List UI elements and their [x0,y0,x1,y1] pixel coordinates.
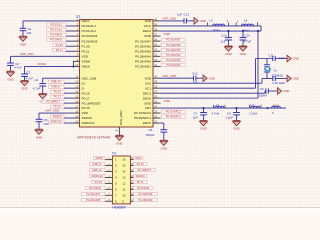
pin 36 P0.31/AIN7 [153,40,161,42]
svg-text:VDDH: VDDH [82,60,91,64]
svg-text:39: 39 [154,22,157,26]
wire pin1 DEC1 [23,20,73,22]
wire pin40 VDD [161,20,185,22]
capacitor C2 4.7uF [10,56,12,63]
port P0.02/AIN0 [162,58,186,61]
svg-text:2.2nH: 2.2nH [250,111,258,115]
wire pin30 VDD [161,77,194,79]
P1 pin 16 GND [130,159,133,161]
svg-text:GND: GND [21,87,27,91]
svg-text:1pF: 1pF [193,116,198,120]
pin 21 DEC5 [153,122,161,124]
ground right of C12 [203,75,207,82]
svg-text:GND: GND [200,19,206,23]
inductor L2 10nH [207,22,209,26]
svg-text:P0.17: P0.17 [82,96,90,100]
svg-text:37: 37 [154,32,157,36]
svg-text:P0.09/NFC1: P0.09/NFC1 [134,116,151,120]
port P0.31/AIN7 [162,38,186,41]
svg-text:P0.20: P0.20 [137,162,145,166]
svg-text:104: 104 [193,81,198,85]
svg-text:GND: GND [200,127,206,131]
svg-text:4.7uF: 4.7uF [25,77,33,81]
svg-text:D+: D+ [82,81,86,85]
port P0.5/AN3 [46,38,66,41]
pin 5 P0.05/AIN3 [73,40,80,42]
svg-text:C6: C6 [149,128,153,132]
svg-text:P0.5/AN3: P0.5/AN3 [50,38,62,42]
svg-text:GND: GND [116,141,122,145]
port P0.15 [51,90,64,93]
svg-text:P0.28/AIN4: P0.28/AIN4 [138,198,153,202]
svg-text:P1.00: P1.00 [82,44,90,48]
capacitor C5 104 [38,113,40,119]
svg-text:C12: C12 [192,72,198,76]
svg-text:P0.09/NFC1: P0.09/NFC1 [166,115,182,119]
svg-text:GND: GND [233,127,239,131]
svg-text:27: 27 [154,90,157,94]
svg-text:P0.31/AIN7: P0.31/AIN7 [86,192,101,196]
port P0.30/AIN6 [162,43,186,46]
wire pin29 XC2 [161,82,263,84]
pin 15 P0.17 [73,97,80,99]
wire pin18 VDD [39,112,73,114]
pin 1 DEC1 [73,20,80,22]
svg-text:P0.02/AIN0: P0.02/AIN0 [166,58,181,62]
port P0.28/AIN4 [162,53,186,56]
svg-text:GND: GND [283,89,289,93]
svg-text:DEC4: DEC4 [143,29,152,33]
svg-text:13: 13 [75,85,78,89]
svg-text:C10 12pF: C10 12pF [272,81,285,85]
P1 pin 7 SWDCLK [105,176,112,178]
svg-text:C13: C13 [184,12,190,16]
svg-text:XC2: XC2 [145,81,151,85]
svg-text:34: 34 [154,48,157,52]
svg-text:P0.03/AIN1: P0.03/AIN1 [166,63,181,67]
svg-text:P0.5/AN3: P0.5/AN3 [137,186,149,190]
wire L4 out down to DEC4 row [260,26,262,31]
inductor L3 2.2nH [249,105,251,108]
wire pin9 VDDH drop [72,60,75,62]
svg-text:nRF_VDD: nRF_VDD [46,108,61,112]
port P0.10/NFC2 [162,110,186,113]
capacitor C7 1pF [203,108,205,112]
svg-text:P0.0/XL1: P0.0/XL1 [51,23,63,27]
svg-text:HEADER: HEADER [112,206,126,210]
P1 pin 10 P0.30/AIN6 [130,194,133,196]
svg-text:19: 19 [75,114,78,118]
svg-text:DEC_USB: DEC_USB [82,76,97,80]
pin 39 DCC [153,25,161,27]
svg-text:4.7uF: 4.7uF [244,39,252,43]
svg-text:VDD: VDD [82,111,89,115]
svg-text:D-: D- [82,86,85,90]
svg-text:SWDCLK: SWDCLK [50,120,62,124]
wire pin10 VBUS / VDDH net [25,65,74,67]
svg-text:P0.18/RESET: P0.18/RESET [82,101,101,105]
junction R ANT [266,107,268,109]
svg-text:20: 20 [75,119,78,123]
svg-text:P0.11: P0.11 [82,49,90,53]
wire pin11 DEC_USB [43,77,73,79]
svg-text:P0.1/XL2: P0.1/XL2 [51,28,63,32]
svg-text:41: 41 [115,129,118,133]
pin 29 XC2 [153,82,161,84]
svg-text:SWDIO: SWDIO [82,116,93,120]
svg-text:VDD: VDD [144,76,151,80]
pin 16 P0.18/RESET [73,102,80,104]
svg-text:P1.00: P1.00 [95,180,103,184]
svg-text:4.7uF: 4.7uF [33,87,41,91]
svg-text:P0.30/AIN6: P0.30/AIN6 [166,43,181,47]
capacitor C14 4.7uF [242,31,244,38]
pin 20 SWDCLK [73,122,80,124]
capacitor C8 1.2pF [236,108,238,112]
svg-text:P0.28/AIN4: P0.28/AIN4 [135,54,151,58]
svg-text:P0.31/AIN7: P0.31/AIN7 [166,38,181,42]
svg-text:11: 11 [122,187,125,191]
svg-text:P0.17: P0.17 [54,95,62,99]
port P0.29/AIN5 [162,48,186,51]
ground right of C11 [287,55,291,62]
svg-text:30: 30 [154,75,157,79]
svg-text:P0.29/AIN5: P0.29/AIN5 [86,198,101,202]
svg-text:L4: L4 [244,18,248,22]
ground right of C9 [278,88,282,95]
pin 7 P0.11 [73,50,80,52]
wire pin28 XC1 [161,87,256,89]
svg-text:GND: GND [144,34,152,38]
wire pin39 DCC [161,25,262,27]
P1 pin 9 P0.28/AIN4 [130,200,133,202]
wire pin26 DEC6 [161,97,259,99]
wire pin38 DEC4 [161,30,262,32]
svg-text:10: 10 [122,193,126,197]
port P0.0/XL1 [46,23,66,26]
svg-text:4.7uF: 4.7uF [14,66,22,70]
port SWDIO [51,115,64,118]
P1 pin 13 SWDIO [130,176,133,178]
P1 pin 3 USB_D- [105,165,112,167]
svg-text:SWDCLK: SWDCLK [91,174,103,178]
pin 38 DEC4 [153,30,161,32]
port P0.4/AN2 [46,33,66,36]
capacitor C15 1uF [228,31,230,38]
port P0.09/NFC1 [162,115,186,118]
svg-text:15: 15 [122,164,126,168]
svg-text:DEC3: DEC3 [143,91,152,95]
svg-text:104: 104 [44,122,49,126]
P1 pin 12 P0.11 [130,182,133,184]
pin 2 P0.00/XL1 [73,25,80,27]
svg-text:P0.18/RST: P0.18/RST [46,100,60,104]
svg-text:USB_D+: USB_D+ [51,80,62,84]
P1 pin 14 P0.18/RST [130,171,133,173]
svg-text:P0.02/AIN0: P0.02/AIN0 [135,60,151,64]
svg-text:VBUS: VBUS [82,65,90,69]
pin 10 VBUS [73,65,80,67]
ground pad GND [116,134,124,136]
ground for C4 [39,93,47,95]
port P0.18/RST [42,100,64,103]
svg-text:28: 28 [154,85,157,89]
ground for C5 [35,128,43,130]
svg-text:12: 12 [122,182,126,186]
svg-text:23: 23 [154,109,157,113]
port P0.11 [53,48,66,51]
svg-text:104: 104 [26,31,31,35]
svg-text:4.7nH: 4.7nH [212,111,220,115]
svg-text:33: 33 [154,53,157,57]
P1 pin 15 P0.20 [130,165,133,167]
ground right of C13 [194,18,198,25]
svg-text:C15: C15 [221,34,227,38]
svg-text:C3: C3 [26,70,30,74]
svg-text:GND: GND [135,156,141,160]
svg-text:nRF52833-QFN40: nRF52833-QFN40 [77,135,110,139]
wire pin21 DEC5 [161,122,164,124]
wire pin27 DEC3 [161,92,266,94]
ground for C6 [160,139,168,141]
svg-text:P0.11: P0.11 [56,48,63,52]
svg-text:P0.30/AIN6: P0.30/AIN6 [135,44,151,48]
capacitor C1 104 [20,27,27,29]
svg-text:(32MHZ): (32MHZ) [272,74,283,78]
ground for C3 [21,80,29,82]
capacitor C10 12pF [272,76,274,81]
pin 8 VDD [73,55,80,57]
P1 pin 11 P0.4/AN2 [105,188,112,190]
junction C8 [235,107,237,109]
pin 32 P0.02/AIN0 [153,60,161,62]
svg-text:ANT: ANT [145,106,151,110]
svg-text:P1: P1 [112,152,116,156]
svg-text:SWDIO: SWDIO [53,115,62,119]
pin 4 P0.04/AIN2 [73,35,80,37]
svg-text:13: 13 [122,176,126,180]
pin 17 P0.20 [73,107,80,109]
P1 pin 1 VDDH [105,159,112,161]
svg-text:35: 35 [154,43,157,47]
P1 pin 5 USB_D+ [105,171,112,173]
svg-text:GND: GND [240,52,246,56]
svg-text:P0.11: P0.11 [137,180,144,184]
svg-text:C14: C14 [244,34,250,38]
svg-text:nRF_VDD: nRF_VDD [163,17,178,21]
port P0.20 [51,105,64,108]
svg-text:32: 32 [154,58,157,62]
svg-text:C11: C11 [269,54,274,58]
pin 19 SWDIO [73,117,80,119]
ground for C2 [7,70,15,72]
svg-text:USB_D-: USB_D- [92,162,102,166]
pin 3 P0.01/XL2 [73,30,80,32]
svg-text:10nH: 10nH [213,28,220,32]
P1 pin 15 P0.29/AIN5 [105,200,112,202]
pin 35 P0.30/AIN6 [153,45,161,47]
svg-text:GND: GND [164,99,172,103]
svg-text:21: 21 [154,119,157,123]
svg-text:nRF_VDD: nRF_VDD [20,52,35,56]
port SWDCLK [49,120,65,123]
svg-text:P0.15: P0.15 [82,91,90,95]
svg-text:P0.28/AIN4: P0.28/AIN4 [166,53,181,57]
pin 33 P0.28/AIN4 [153,55,161,57]
pin 27 DEC3 [153,92,161,94]
svg-text:GND: GND [20,42,26,46]
svg-text:P0.05/AIN3: P0.05/AIN3 [82,39,98,43]
svg-text:USB_D+: USB_D+ [92,168,103,172]
wire pin8 VDD [11,55,74,57]
svg-text:24: 24 [154,104,157,108]
svg-text:GND: GND [7,77,13,81]
svg-text:14: 14 [122,170,126,174]
svg-text:VDDH: VDDH [95,156,103,160]
svg-text:10: 10 [75,63,78,67]
svg-text:P0.29/AIN5: P0.29/AIN5 [166,48,181,52]
inductor L4 10uH [235,22,237,26]
ground for C8 [233,120,241,122]
P1 pin 9 P1.00 [105,182,112,184]
pin 13 D- [73,87,80,89]
svg-text:31: 31 [154,63,157,67]
svg-text:16: 16 [75,100,78,104]
svg-text:P0.4/AN2: P0.4/AN2 [50,33,62,37]
pin 28 XC1 [153,87,161,89]
pin 31 P0.03/AIN1 [153,65,161,67]
svg-text:DEC5: DEC5 [143,121,152,125]
ground for C14 [239,45,247,47]
svg-text:P1.00: P1.00 [56,43,64,47]
connector P1 HEADER 16 pin body [112,156,130,204]
crystal Y2 32MHz [266,59,268,65]
pin 37 GND [153,35,161,37]
svg-text:C4: C4 [35,78,39,82]
svg-text:17: 17 [75,104,78,108]
pin 11 DEC_USB [73,77,80,79]
capacitor C12 104 [193,76,195,81]
pin 24 ANT [153,107,161,109]
svg-text:SWDIO: SWDIO [136,174,145,178]
svg-text:DEC6: DEC6 [143,96,152,100]
svg-text:L3: L3 [251,103,255,107]
svg-text:40: 40 [154,17,157,21]
pin 23 P0.10/NFC2 [153,112,161,114]
svg-text:GND: GND [209,76,215,80]
svg-text:11: 11 [76,75,79,79]
svg-text:14: 14 [75,90,78,94]
svg-text:SWDCLK: SWDCLK [82,121,96,125]
svg-text:1uF: 1uF [177,12,182,16]
svg-text:nRF_VDD: nRF_VDD [163,74,178,78]
svg-text:16: 16 [122,158,126,162]
svg-text:820pF: 820pF [146,133,155,137]
pin 12 D+ [73,82,80,84]
svg-text:36: 36 [154,38,157,42]
inductor L1 4.7nH [213,105,215,108]
svg-text:26: 26 [154,95,157,99]
svg-text:15: 15 [75,95,78,99]
svg-text:GND: GND [36,135,42,139]
svg-text:P0.04/AIN2: P0.04/AIN2 [82,34,98,38]
svg-text:P0.15: P0.15 [54,90,62,94]
ground for C15 [225,45,233,47]
svg-text:P0.20: P0.20 [82,106,90,110]
svg-text:P0.30/AIN6: P0.30/AIN6 [138,192,153,196]
svg-text:22: 22 [154,114,157,118]
svg-text:GND: GND [164,32,172,36]
svg-text:DCC: DCC [144,24,151,28]
svg-text:L1: L1 [216,103,220,107]
port USB_D- [49,85,65,88]
svg-text:P0.10/NFC2: P0.10/NFC2 [166,110,182,114]
svg-text:GND: GND [225,52,231,56]
capacitor C9 100nF [265,88,267,93]
P1 pin 13 P0.31/AIN7 [105,194,112,196]
svg-text:DEC1: DEC1 [82,19,91,23]
svg-text:GND: GND [144,101,152,105]
svg-text:P0.4/AN2: P0.4/AN2 [89,186,101,190]
pin 30 VDD [153,77,161,79]
svg-text:25: 25 [154,100,157,104]
svg-text:PAD_GND: PAD_GND [119,110,123,125]
svg-text:VDDH: VDDH [38,62,47,66]
pin 26 DEC6 [153,97,161,99]
junction VDDH/VBUS [72,65,74,67]
pin 18 VDD [73,112,80,114]
pin 22 P0.09/NFC1 [153,117,161,119]
svg-text:GND: GND [293,77,299,81]
svg-text:Y2: Y2 [273,69,277,73]
port P0.1/XL2 [46,28,66,31]
pin 34 P0.29/AIN5 [153,50,161,52]
junction C15 [227,30,229,32]
svg-text:XC1: XC1 [145,86,151,90]
capacitor C11 12pF [272,56,274,61]
junction DEC6/DEC4 [257,30,259,32]
IC U1 nRF52833-QFN40 body [80,20,154,128]
pin 40 VDD [153,20,161,22]
svg-text:VDD: VDD [82,54,89,58]
capacitor C3 4.7uF [24,66,26,74]
capacitor C13 1uF [183,18,185,23]
svg-text:VDD: VDD [144,19,151,23]
svg-text:29: 29 [154,80,157,84]
svg-text:P0.31/AIN7: P0.31/AIN7 [135,39,151,43]
port USB_D+ [49,80,65,83]
svg-text:P0.29/AIN5: P0.29/AIN5 [135,49,151,53]
capacitor C6 820pF [160,129,167,131]
svg-text:P0.03/AIN1: P0.03/AIN1 [135,65,151,69]
svg-text:USB_D-: USB_D- [51,85,61,89]
ground for C7 [200,120,208,122]
port P1.00 [53,43,66,46]
svg-text:C9: C9 [260,87,264,91]
port P0.17 [51,95,64,98]
svg-text:1uF: 1uF [220,39,225,43]
pin 25 GND [153,102,161,104]
svg-text:12: 12 [75,80,78,84]
svg-text:P0.10/NFC2: P0.10/NFC2 [134,111,151,115]
svg-text:P0.00/XL1: P0.00/XL1 [82,24,97,28]
junction C14 [242,30,244,32]
capacitor C4 4.7uF [39,83,46,85]
svg-text:P0.18/RST: P0.18/RST [138,168,152,172]
svg-text:L3: L3 [209,19,213,23]
pin 6 P1.00 [73,45,80,47]
wire pin24 ANT [161,107,287,109]
